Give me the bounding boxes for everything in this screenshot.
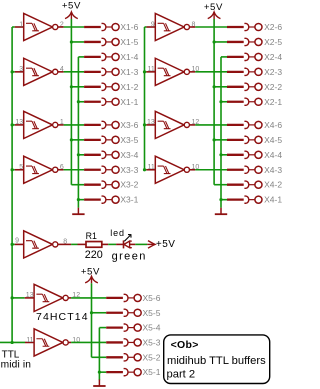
inverter IC gate A6 (74HCT14 Schmitt) bbox=[24, 111, 58, 138]
connector pin X4-4 bbox=[227, 151, 262, 158]
svg-text:X5-6: X5-6 bbox=[143, 293, 161, 303]
svg-text:green: green bbox=[112, 251, 147, 263]
svg-text:X2-1: X2-1 bbox=[264, 97, 282, 107]
svg-text:9: 9 bbox=[15, 238, 19, 245]
svg-text:X1-3: X1-3 bbox=[120, 67, 138, 77]
output pin stub input buffer bbox=[68, 341, 71, 343]
wire: TTL midi in bbox=[0, 341, 25, 343]
connector pin X3-4 bbox=[84, 151, 119, 158]
svg-text:74HCT14: 74HCT14 bbox=[36, 311, 89, 323]
svg-text:X4-1: X4-1 bbox=[264, 195, 282, 205]
svg-text:+5V: +5V bbox=[81, 266, 100, 277]
output pin stub gate C6 bbox=[68, 297, 71, 299]
wire: IC gate B3 output to connector bbox=[195, 124, 227, 126]
svg-text:9: 9 bbox=[151, 21, 155, 28]
input pin stub IC gate B3 bbox=[146, 124, 155, 126]
output pin stub IC gate A6 bbox=[58, 124, 64, 126]
svg-text:13: 13 bbox=[15, 119, 23, 126]
junction on +5V line X5 bbox=[90, 311, 93, 314]
connector pin X3-3 bbox=[84, 166, 119, 173]
resistor R1 220 bbox=[78, 242, 109, 248]
wire: +5V tap bbox=[214, 86, 227, 88]
junction on GND line X5 bbox=[98, 371, 101, 374]
wire: +5V rail right vertical bbox=[213, 19, 215, 185]
svg-text:13: 13 bbox=[26, 292, 34, 299]
wire: GND tap bbox=[78, 199, 84, 201]
junction on +5V rail bbox=[70, 138, 73, 141]
svg-text:X4-4: X4-4 bbox=[264, 150, 282, 160]
input pin stub IC gate A3 bbox=[15, 169, 24, 171]
junction on +5V rail right bbox=[213, 40, 216, 43]
wire: input tap to IC gate B2 bbox=[145, 71, 147, 73]
ground symbol GND1 (below X3) bbox=[72, 208, 84, 215]
wire: gate A1 out to X1-6 bbox=[64, 26, 84, 28]
svg-text:<Ob>: <Ob> bbox=[171, 339, 199, 351]
inverter IC gate B1 (74HCT14 Schmitt) bbox=[155, 13, 189, 40]
input pin stub LED driver bbox=[15, 243, 24, 245]
input pin stub IC gate B1 bbox=[146, 26, 155, 28]
svg-text:X1-4: X1-4 bbox=[120, 52, 138, 62]
connector pin X2-2 bbox=[227, 83, 262, 90]
wire: +5V line X5 vertical bbox=[91, 283, 93, 357]
junction on +5V rail right bbox=[213, 85, 216, 88]
output pin stub IC gate A3 bbox=[58, 169, 64, 171]
connector pin X5-3 bbox=[106, 339, 141, 346]
connector pin X1-5 bbox=[84, 38, 119, 45]
connector pin X2-6 bbox=[227, 23, 262, 30]
+5V supply symbol (X5) bbox=[85, 276, 98, 283]
wire: GND tap bbox=[78, 101, 84, 103]
input pin stub gate C6 bbox=[25, 297, 34, 299]
junction on GND line bbox=[77, 153, 80, 156]
ground symbol GND2 (below X4) bbox=[215, 208, 227, 215]
junction on GND line right bbox=[219, 198, 222, 201]
connector pin X5-1 bbox=[106, 369, 141, 376]
svg-text:+5V: +5V bbox=[62, 1, 81, 12]
wire: input tap to IC gate A3 bbox=[12, 169, 15, 171]
junction on left bus at IC gate A6 bbox=[11, 123, 14, 126]
svg-text:X2-6: X2-6 bbox=[264, 22, 282, 32]
svg-text:X2-2: X2-2 bbox=[264, 82, 282, 92]
svg-text:X3-3: X3-3 bbox=[120, 165, 138, 175]
output pin stub IC gate A2 bbox=[58, 71, 64, 73]
connector pin X1-6 bbox=[84, 23, 119, 30]
connector pin X4-3 bbox=[227, 166, 262, 173]
svg-text:X4-3: X4-3 bbox=[264, 165, 282, 175]
wire: gate out to R1 bbox=[71, 243, 77, 245]
svg-text:11: 11 bbox=[26, 337, 33, 344]
wire: GND line X5 vertical bbox=[98, 328, 100, 381]
svg-text:X1-5: X1-5 bbox=[120, 37, 138, 47]
wire: input tap to IC gate A6 bbox=[12, 124, 15, 126]
junction on right bus at IC gate B4 bbox=[143, 168, 146, 171]
inverter IC gate B3 (74HCT14 Schmitt) bbox=[155, 111, 189, 138]
wire: +5V tap bbox=[214, 139, 227, 141]
wire: GND tap bbox=[78, 154, 84, 156]
wire: GND line right vertical bbox=[220, 57, 222, 208]
inverter IC gate A2 (74HCT14 Schmitt) bbox=[24, 58, 58, 85]
wire: input tap to gate C6 bbox=[12, 297, 25, 299]
svg-text:X1-1: X1-1 bbox=[120, 97, 138, 107]
svg-text:3: 3 bbox=[19, 66, 23, 73]
wire: input tap to IC gate A2 bbox=[12, 71, 15, 73]
wire: IC gate B4 output to connector bbox=[195, 169, 227, 171]
svg-text:X2-4: X2-4 bbox=[264, 52, 282, 62]
input pin stub IC gate B2 bbox=[146, 71, 155, 73]
wire: gate A6 out to X3-6 bbox=[64, 124, 84, 126]
wire: GND corner to X2-4 bbox=[221, 56, 227, 58]
connector pin X4-1 bbox=[227, 196, 262, 203]
svg-text:midihub TTL buffers: midihub TTL buffers bbox=[167, 355, 266, 367]
wire: +5V tap bbox=[71, 86, 84, 88]
note box frame bbox=[164, 335, 270, 384]
svg-text:X4-6: X4-6 bbox=[264, 120, 282, 130]
svg-text:X2-3: X2-3 bbox=[264, 67, 282, 77]
wire: +5V tap bbox=[214, 41, 227, 43]
wire: +5V corner to X5-2 bbox=[92, 356, 107, 358]
svg-text:11: 11 bbox=[148, 66, 155, 73]
svg-text:X3-5: X3-5 bbox=[120, 135, 138, 145]
connector pin X1-4 bbox=[84, 53, 119, 60]
wire: input tap to IC gate A1 bbox=[12, 26, 15, 28]
svg-text:220: 220 bbox=[85, 249, 103, 261]
inverter IC gate B4 (74HCT14 Schmitt) bbox=[155, 156, 189, 183]
wire: input tap to IC gate B4 bbox=[145, 169, 147, 171]
junction on left bus at LED driver bbox=[11, 243, 14, 246]
svg-text:1: 1 bbox=[19, 21, 23, 28]
svg-text:R1: R1 bbox=[86, 231, 97, 241]
connector pin X3-5 bbox=[84, 136, 119, 143]
wire: +5V rail left vertical bbox=[70, 19, 72, 185]
wire: input buffer out to X5-3 bbox=[71, 341, 106, 343]
inverter IC gate B2 (74HCT14 Schmitt) bbox=[155, 58, 189, 85]
output pin stub IC gate B1 bbox=[190, 26, 196, 28]
junction on GND line right bbox=[219, 100, 222, 103]
connector pin X3-6 bbox=[84, 121, 119, 128]
svg-text:X5-4: X5-4 bbox=[143, 323, 161, 333]
svg-text:X4-2: X4-2 bbox=[264, 180, 282, 190]
connector pin X1-2 bbox=[84, 83, 119, 90]
output pin stub IC gate B2 bbox=[190, 71, 196, 73]
svg-text:X5-5: X5-5 bbox=[143, 308, 161, 318]
output pin stub IC gate B3 bbox=[190, 124, 196, 126]
junction on GND line bbox=[77, 100, 80, 103]
svg-text:X3-2: X3-2 bbox=[120, 180, 138, 190]
svg-text:X5-1: X5-1 bbox=[143, 367, 161, 377]
svg-text:X3-4: X3-4 bbox=[120, 150, 138, 160]
svg-text:11: 11 bbox=[148, 164, 155, 171]
junction TTL midi in to left bus bbox=[11, 341, 14, 344]
connector pin X4-5 bbox=[227, 136, 262, 143]
svg-text:X1-2: X1-2 bbox=[120, 82, 138, 92]
wire: GND tap bbox=[221, 154, 227, 156]
wire: +5V rail corner to X3-2 bbox=[71, 184, 84, 186]
junction on right bus at IC gate B2 bbox=[143, 70, 146, 73]
wire: +5V tap to X5-5 bbox=[92, 312, 107, 314]
ground symbol GND3 (below X5) bbox=[93, 380, 105, 387]
svg-text:13: 13 bbox=[147, 119, 155, 126]
wire: GND corner to X5-4 bbox=[99, 327, 106, 329]
connector pin X5-5 bbox=[106, 309, 141, 316]
wire: GND line left vertical bbox=[77, 57, 79, 208]
wire: input tap to IC gate B1 bbox=[145, 26, 147, 28]
junction on left bus at IC gate A2 bbox=[11, 70, 14, 73]
connector pin X4-6 bbox=[227, 121, 262, 128]
wire: GND tap bbox=[221, 101, 227, 103]
led pointer arrow bbox=[124, 235, 131, 242]
svg-text:+5V: +5V bbox=[156, 239, 176, 250]
wire: gate A2 out to X1-3 bbox=[64, 71, 84, 73]
output pin stub IC gate B4 bbox=[190, 169, 196, 171]
wire: +5V rail corner to X4-2 bbox=[214, 184, 227, 186]
wire: GND tap bbox=[221, 199, 227, 201]
connector pin X1-3 bbox=[84, 68, 119, 75]
svg-text:X1-6: X1-6 bbox=[120, 22, 138, 32]
junction on right bus at IC gate B3 bbox=[143, 123, 146, 126]
wire: GND tap to X5-1 bbox=[99, 371, 106, 373]
connector pin X2-1 bbox=[227, 98, 262, 105]
svg-text:X3-6: X3-6 bbox=[120, 120, 138, 130]
input pin stub IC gate A1 bbox=[15, 26, 24, 28]
inverter LED driver (74HCT14 Schmitt) bbox=[24, 231, 58, 258]
input pin stub input buffer bbox=[25, 341, 34, 343]
junction on GND line bbox=[77, 198, 80, 201]
connector pin X5-4 bbox=[106, 324, 141, 331]
svg-text:5: 5 bbox=[19, 164, 23, 171]
wire: IC gate B1 output to connector bbox=[195, 26, 227, 28]
svg-text:X5-2: X5-2 bbox=[143, 352, 161, 362]
inverter IC gate A3 (74HCT14 Schmitt) bbox=[24, 156, 58, 183]
connector pin X3-1 bbox=[84, 196, 119, 203]
svg-text:X2-5: X2-5 bbox=[264, 37, 282, 47]
svg-text:part 2: part 2 bbox=[167, 369, 196, 381]
wire: +5V tap bbox=[71, 139, 84, 141]
svg-text:led: led bbox=[110, 228, 125, 238]
input pin stub IC gate A6 bbox=[15, 124, 24, 126]
connector pin X2-5 bbox=[227, 38, 262, 45]
wire: input tap to IC gate B3 bbox=[145, 124, 147, 126]
wire: R1 to LED bbox=[108, 243, 116, 245]
wire: GND corner to X1-4 bbox=[78, 56, 84, 58]
junction on left bus at IC gate A3 bbox=[11, 168, 14, 171]
junction on +5V rail bbox=[70, 40, 73, 43]
svg-text:X5-3: X5-3 bbox=[143, 337, 161, 347]
LED D1 green bbox=[116, 240, 135, 248]
wire: LED to +5V bbox=[135, 243, 147, 245]
connector pin X1-1 bbox=[84, 98, 119, 105]
input pin stub IC gate B4 bbox=[146, 169, 155, 171]
wire: gate A3 out to X3-3 bbox=[64, 169, 84, 171]
+5V supply symbol (left) bbox=[65, 12, 78, 19]
junction on left bus at gate C6 bbox=[11, 296, 14, 299]
connector pin X4-2 bbox=[227, 181, 262, 188]
output pin stub IC gate A1 bbox=[58, 26, 64, 28]
wire: IC gate B2 output to connector bbox=[195, 71, 227, 73]
junction on GND line right bbox=[219, 153, 222, 156]
wire: left input bus (TTL midi in net) bbox=[11, 27, 13, 342]
connector pin X2-3 bbox=[227, 68, 262, 75]
inverter IC gate A1 (74HCT14 Schmitt) bbox=[24, 13, 58, 40]
connector pin X5-6 bbox=[106, 294, 141, 301]
wire: +5V tap bbox=[71, 41, 84, 43]
connector pin X3-2 bbox=[84, 181, 119, 188]
wire: gate C6 out to X5-6 bbox=[71, 297, 106, 299]
wire: input tap to LED driver gate bbox=[12, 243, 15, 245]
junction on +5V rail right bbox=[213, 138, 216, 141]
svg-text:X4-5: X4-5 bbox=[264, 135, 282, 145]
svg-text:+5V: +5V bbox=[204, 2, 223, 13]
svg-text:X3-1: X3-1 bbox=[120, 195, 138, 205]
junction on +5V rail bbox=[70, 85, 73, 88]
wire: right input bus bbox=[144, 27, 146, 170]
input pin stub IC gate A2 bbox=[15, 71, 24, 73]
connector pin X5-2 bbox=[106, 354, 141, 361]
+5V supply symbol (right) bbox=[208, 12, 221, 19]
svg-text:midi in: midi in bbox=[1, 359, 32, 370]
connector pin X2-4 bbox=[227, 53, 262, 60]
+5V supply arrow (LED row) bbox=[147, 241, 155, 249]
inverter input buffer (74HCT14 Schmitt) bbox=[34, 329, 68, 356]
inverter gate C6 (74HCT14 Schmitt) bbox=[34, 284, 68, 311]
output pin stub LED driver bbox=[58, 243, 71, 245]
